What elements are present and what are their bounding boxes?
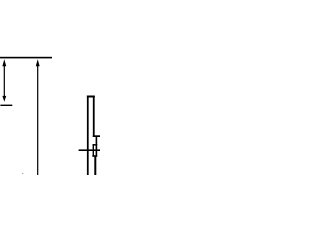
dimension arrow A1 shaft [4,65,5,98]
tube left wall [87,96,89,176]
inner right wall [96,137,98,157]
dimension arrow A1 up head [2,59,6,66]
lower stem [94,156,96,175]
valve box bottom [92,155,97,157]
faint label remnant [22,173,23,174]
liquid level line [79,149,100,151]
arrow A2 up head [36,59,40,66]
step horizontal [93,135,100,137]
valve box top [93,144,98,146]
top surface line [0,57,52,59]
dimension arrow A1 down head [2,96,6,102]
arrow A2 shaft [37,65,38,176]
valve box left wall [93,144,94,157]
tube right wall [93,96,95,138]
lower datum line [0,105,12,106]
tube top cap [87,96,95,98]
